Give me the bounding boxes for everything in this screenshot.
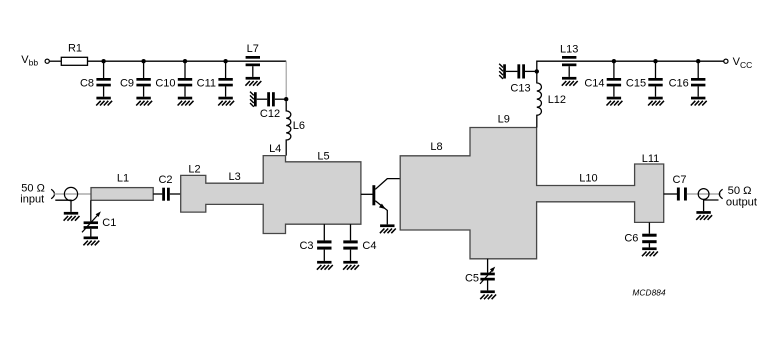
- node junction dot C15: [653, 59, 657, 63]
- svg-text:C1: C1: [102, 217, 116, 229]
- svg-text:C8: C8: [80, 77, 94, 89]
- svg-text:MCD884: MCD884: [632, 288, 666, 298]
- capacitor C2: [153, 174, 181, 201]
- svg-text:CC: CC: [740, 60, 752, 70]
- svg-text:L8: L8: [430, 141, 442, 153]
- svg-text:C4: C4: [362, 240, 376, 252]
- ground L13: [562, 77, 578, 86]
- ground C10: [178, 97, 194, 106]
- ground C16: [691, 97, 707, 106]
- ground C1: [83, 237, 99, 246]
- ground output: [696, 211, 712, 220]
- svg-text:C16: C16: [669, 77, 689, 89]
- svg-text:L5: L5: [317, 150, 329, 162]
- wire bias rail: [88, 60, 287, 62]
- transistor Q1: [361, 179, 400, 225]
- node junction dot C16: [696, 59, 700, 63]
- wire bias corner down (gray): [285, 61, 287, 97]
- capacitor C11: [197, 61, 233, 96]
- ground C6: [642, 247, 658, 256]
- terminal VCC: [724, 59, 728, 63]
- wire VCC rail: [537, 61, 724, 71]
- connector input paren: [51, 189, 54, 199]
- svg-text:L13: L13: [560, 43, 578, 55]
- feedthrough capacitor L13: [560, 43, 578, 77]
- svg-text:L9: L9: [498, 113, 510, 125]
- wire input centre (gray): [54, 193, 92, 195]
- ground C9: [136, 97, 152, 106]
- node junction dot C8: [101, 59, 105, 63]
- svg-text:L6: L6: [293, 120, 305, 132]
- svg-text:L12: L12: [548, 94, 566, 106]
- ground L7: [245, 77, 261, 86]
- inductor L12: [537, 74, 566, 128]
- svg-text:L2: L2: [188, 164, 200, 176]
- ground C4: [343, 261, 359, 270]
- svg-text:L3: L3: [228, 171, 240, 183]
- svg-text:R1: R1: [68, 43, 82, 55]
- capacitor C10: [155, 61, 192, 96]
- svg-text:L7: L7: [247, 43, 259, 55]
- ground Q1 emitter: [380, 224, 396, 233]
- svg-text:C11: C11: [197, 77, 216, 89]
- svg-text:input: input: [20, 193, 44, 205]
- wire input shield: [55, 200, 71, 212]
- capacitor C1 (variable): [82, 200, 116, 236]
- wire output centre (gray): [687, 193, 721, 195]
- svg-text:C13: C13: [510, 82, 530, 94]
- node junction dot C11: [223, 59, 227, 63]
- svg-text:L1: L1: [117, 172, 129, 184]
- svg-text:L10: L10: [579, 172, 597, 184]
- node junction dot C12/L6: [284, 97, 288, 101]
- svg-text:C5: C5: [465, 272, 479, 284]
- node junction dot C14: [612, 59, 616, 63]
- svg-text:C14: C14: [584, 77, 604, 89]
- svg-text:L11: L11: [642, 153, 660, 165]
- capacitor C5 (variable): [465, 259, 495, 291]
- microstrip block L8+L9+L10+L11: [400, 128, 664, 259]
- capacitor C13: [499, 64, 537, 95]
- ground C14: [607, 97, 623, 106]
- capacitor C7: [664, 174, 687, 201]
- wire output shield: [704, 200, 719, 211]
- node junction dot C13/L12: [535, 69, 539, 73]
- terminal Vbb: [45, 59, 49, 63]
- svg-text:50 Ω: 50 Ω: [728, 185, 752, 197]
- inductor L6: [286, 101, 305, 155]
- svg-text:C3: C3: [299, 240, 313, 252]
- svg-text:C10: C10: [155, 77, 175, 89]
- svg-text:C15: C15: [626, 77, 646, 89]
- capacitor C12: [250, 92, 286, 120]
- capacitor C3: [299, 224, 331, 261]
- microstrip block L2+L3+L4+L5: [181, 156, 361, 234]
- node junction dot C9: [141, 59, 145, 63]
- capacitor C15: [626, 61, 663, 96]
- svg-text:C9: C9: [120, 77, 134, 89]
- ground C3: [317, 261, 333, 270]
- connector input circle: [64, 187, 77, 200]
- capacitor C4: [343, 224, 376, 261]
- svg-text:C7: C7: [672, 174, 686, 186]
- capacitor C8: [80, 61, 111, 96]
- svg-text:L4: L4: [269, 143, 281, 155]
- svg-text:C12: C12: [260, 108, 280, 120]
- capacitor C16: [669, 61, 706, 96]
- ground C8: [96, 97, 112, 106]
- ground C5: [480, 290, 496, 299]
- connector output paren: [719, 189, 722, 199]
- wire Vbb to R1: [49, 60, 61, 62]
- connector output circle: [698, 189, 709, 200]
- svg-text:C6: C6: [624, 233, 638, 245]
- resistor R1: [61, 57, 87, 65]
- node junction dot C10: [183, 59, 187, 63]
- svg-text:output: output: [726, 197, 758, 209]
- feedthrough capacitor L7: [246, 43, 260, 77]
- microstrip L1: [91, 188, 153, 201]
- ground C11: [218, 97, 234, 106]
- ground C15: [648, 97, 664, 106]
- svg-text:bb: bb: [29, 58, 39, 68]
- capacitor C6: [624, 222, 656, 247]
- capacitor C14: [584, 61, 621, 96]
- svg-text:C2: C2: [158, 174, 172, 186]
- capacitor C9: [120, 61, 151, 96]
- ground input: [64, 212, 80, 221]
